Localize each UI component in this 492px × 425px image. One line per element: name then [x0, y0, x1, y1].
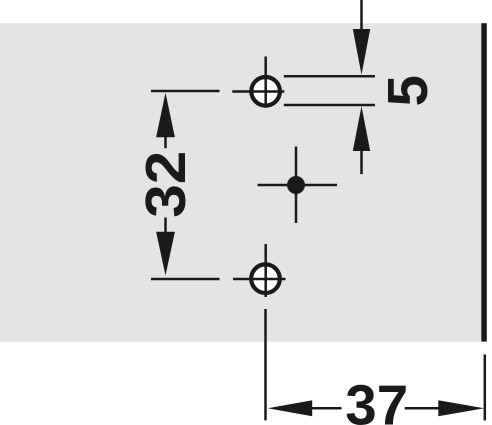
svg-text:5: 5	[376, 75, 439, 106]
svg-text:37: 37	[345, 373, 408, 425]
svg-text:32: 32	[134, 151, 197, 218]
